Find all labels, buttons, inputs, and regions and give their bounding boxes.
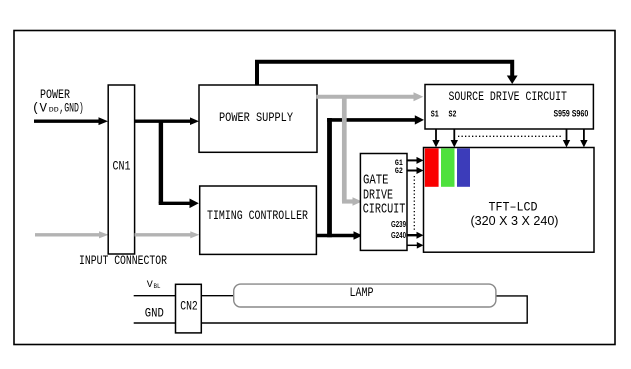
wire: power bus from POWER SUPPLY top to SOURCE DRIVE CIRCUIT [257,62,518,85]
svg-text:(320 X 3 X 240): (320 X 3 X 240) [471,214,559,228]
svg-text:S960: S960 [572,109,589,119]
wire: CN2 to LAMP [201,295,234,297]
wire: CN1 to POWER SUPPLY arrow [135,117,200,125]
svg-text:V: V [147,280,153,291]
svg-text:S1: S1 [431,110,439,120]
wire: G239 arrow to TFT-LCD [407,232,424,239]
connector CN1 [108,85,134,254]
svg-text:(V: (V [32,102,47,116]
wire: gray branch down to GATE DRIVE CIRCUIT [342,95,362,206]
wire: gray bus POWER SUPPLY to SOURCE DRIVE CIRCUIT [316,92,423,101]
svg-text:GND: GND [145,305,164,320]
wire: TIMING CONTROLLER to GATE DRIVE CIRCUIT arrow [316,231,362,240]
wire: LAMP right return [496,296,527,323]
label VBL [147,280,161,291]
svg-text:POWER: POWER [40,88,70,102]
block SOURCE DRIVE CIRCUIT [425,85,593,130]
svg-text:,GND): ,GND) [59,102,84,116]
wire: gray CN1 to TIMING CONTROLLER arrow [135,231,200,238]
wire: S959 arrow down to TFT-LCD [563,129,570,147]
svg-text:POWER SUPPLY: POWER SUPPLY [219,110,293,125]
svg-text:INPUT CONNECTOR: INPUT CONNECTOR [79,253,167,268]
block TIMING CONTROLLER [200,186,317,254]
red subpixel bar [425,148,439,186]
wire: S960 arrow down to TFT-LCD [580,129,587,147]
label (VDD,GND) [32,102,84,116]
svg-text:GATE: GATE [363,174,389,189]
wire: VBL line into CN2 [134,295,176,297]
svg-text:G2: G2 [395,167,403,176]
wire: branch up to SOURCE DRIVE CIRCUIT arrow [327,115,424,237]
wire: G240 arrow to TFT-LCD [407,242,424,249]
wire: S1 arrow down to TFT-LCD [432,129,439,147]
dotted line between gate arrows [413,176,415,230]
wire: branch down to TIMING CONTROLLER [159,120,199,209]
wire: S2 arrow down to TFT-LCD [451,129,458,147]
dotted line between source arrows [458,135,563,137]
svg-text:DRIVE: DRIVE [363,188,393,203]
svg-text:SOURCE DRIVE CIRCUIT: SOURCE DRIVE CIRCUIT [448,89,567,104]
svg-text:CN2: CN2 [180,299,198,314]
wire: GND return line [201,322,528,324]
wire: G2 arrow to TFT-LCD [407,167,424,174]
block TFT-LCD [424,148,595,253]
blue subpixel bar [457,148,470,186]
svg-text:CIRCUIT: CIRCUIT [363,203,406,218]
wire: GND line into CN2 [134,322,176,324]
wire: power input arrow into CN1 [34,117,108,125]
svg-text:BL: BL [154,283,161,290]
wire: G1 arrow to TFT-LCD [407,157,424,164]
lamp LAMP [234,284,496,307]
block GATE DRIVE CIRCUIT [360,154,407,251]
green subpixel bar [441,148,455,186]
svg-text:TFT–LCD: TFT–LCD [489,200,538,214]
svg-text:G240: G240 [391,231,406,240]
svg-text:G239: G239 [391,220,406,229]
block POWER SUPPLY [199,85,317,152]
wire: gray input arrow into CN1 [35,231,109,238]
connector CN2 [176,284,202,333]
svg-text:TIMING CONTROLLER: TIMING CONTROLLER [207,208,308,223]
svg-text:CN1: CN1 [113,159,131,174]
svg-text:S959: S959 [554,109,570,119]
svg-text:S2: S2 [449,110,457,120]
svg-text:LAMP: LAMP [350,285,374,300]
svg-text:DD: DD [49,107,59,114]
